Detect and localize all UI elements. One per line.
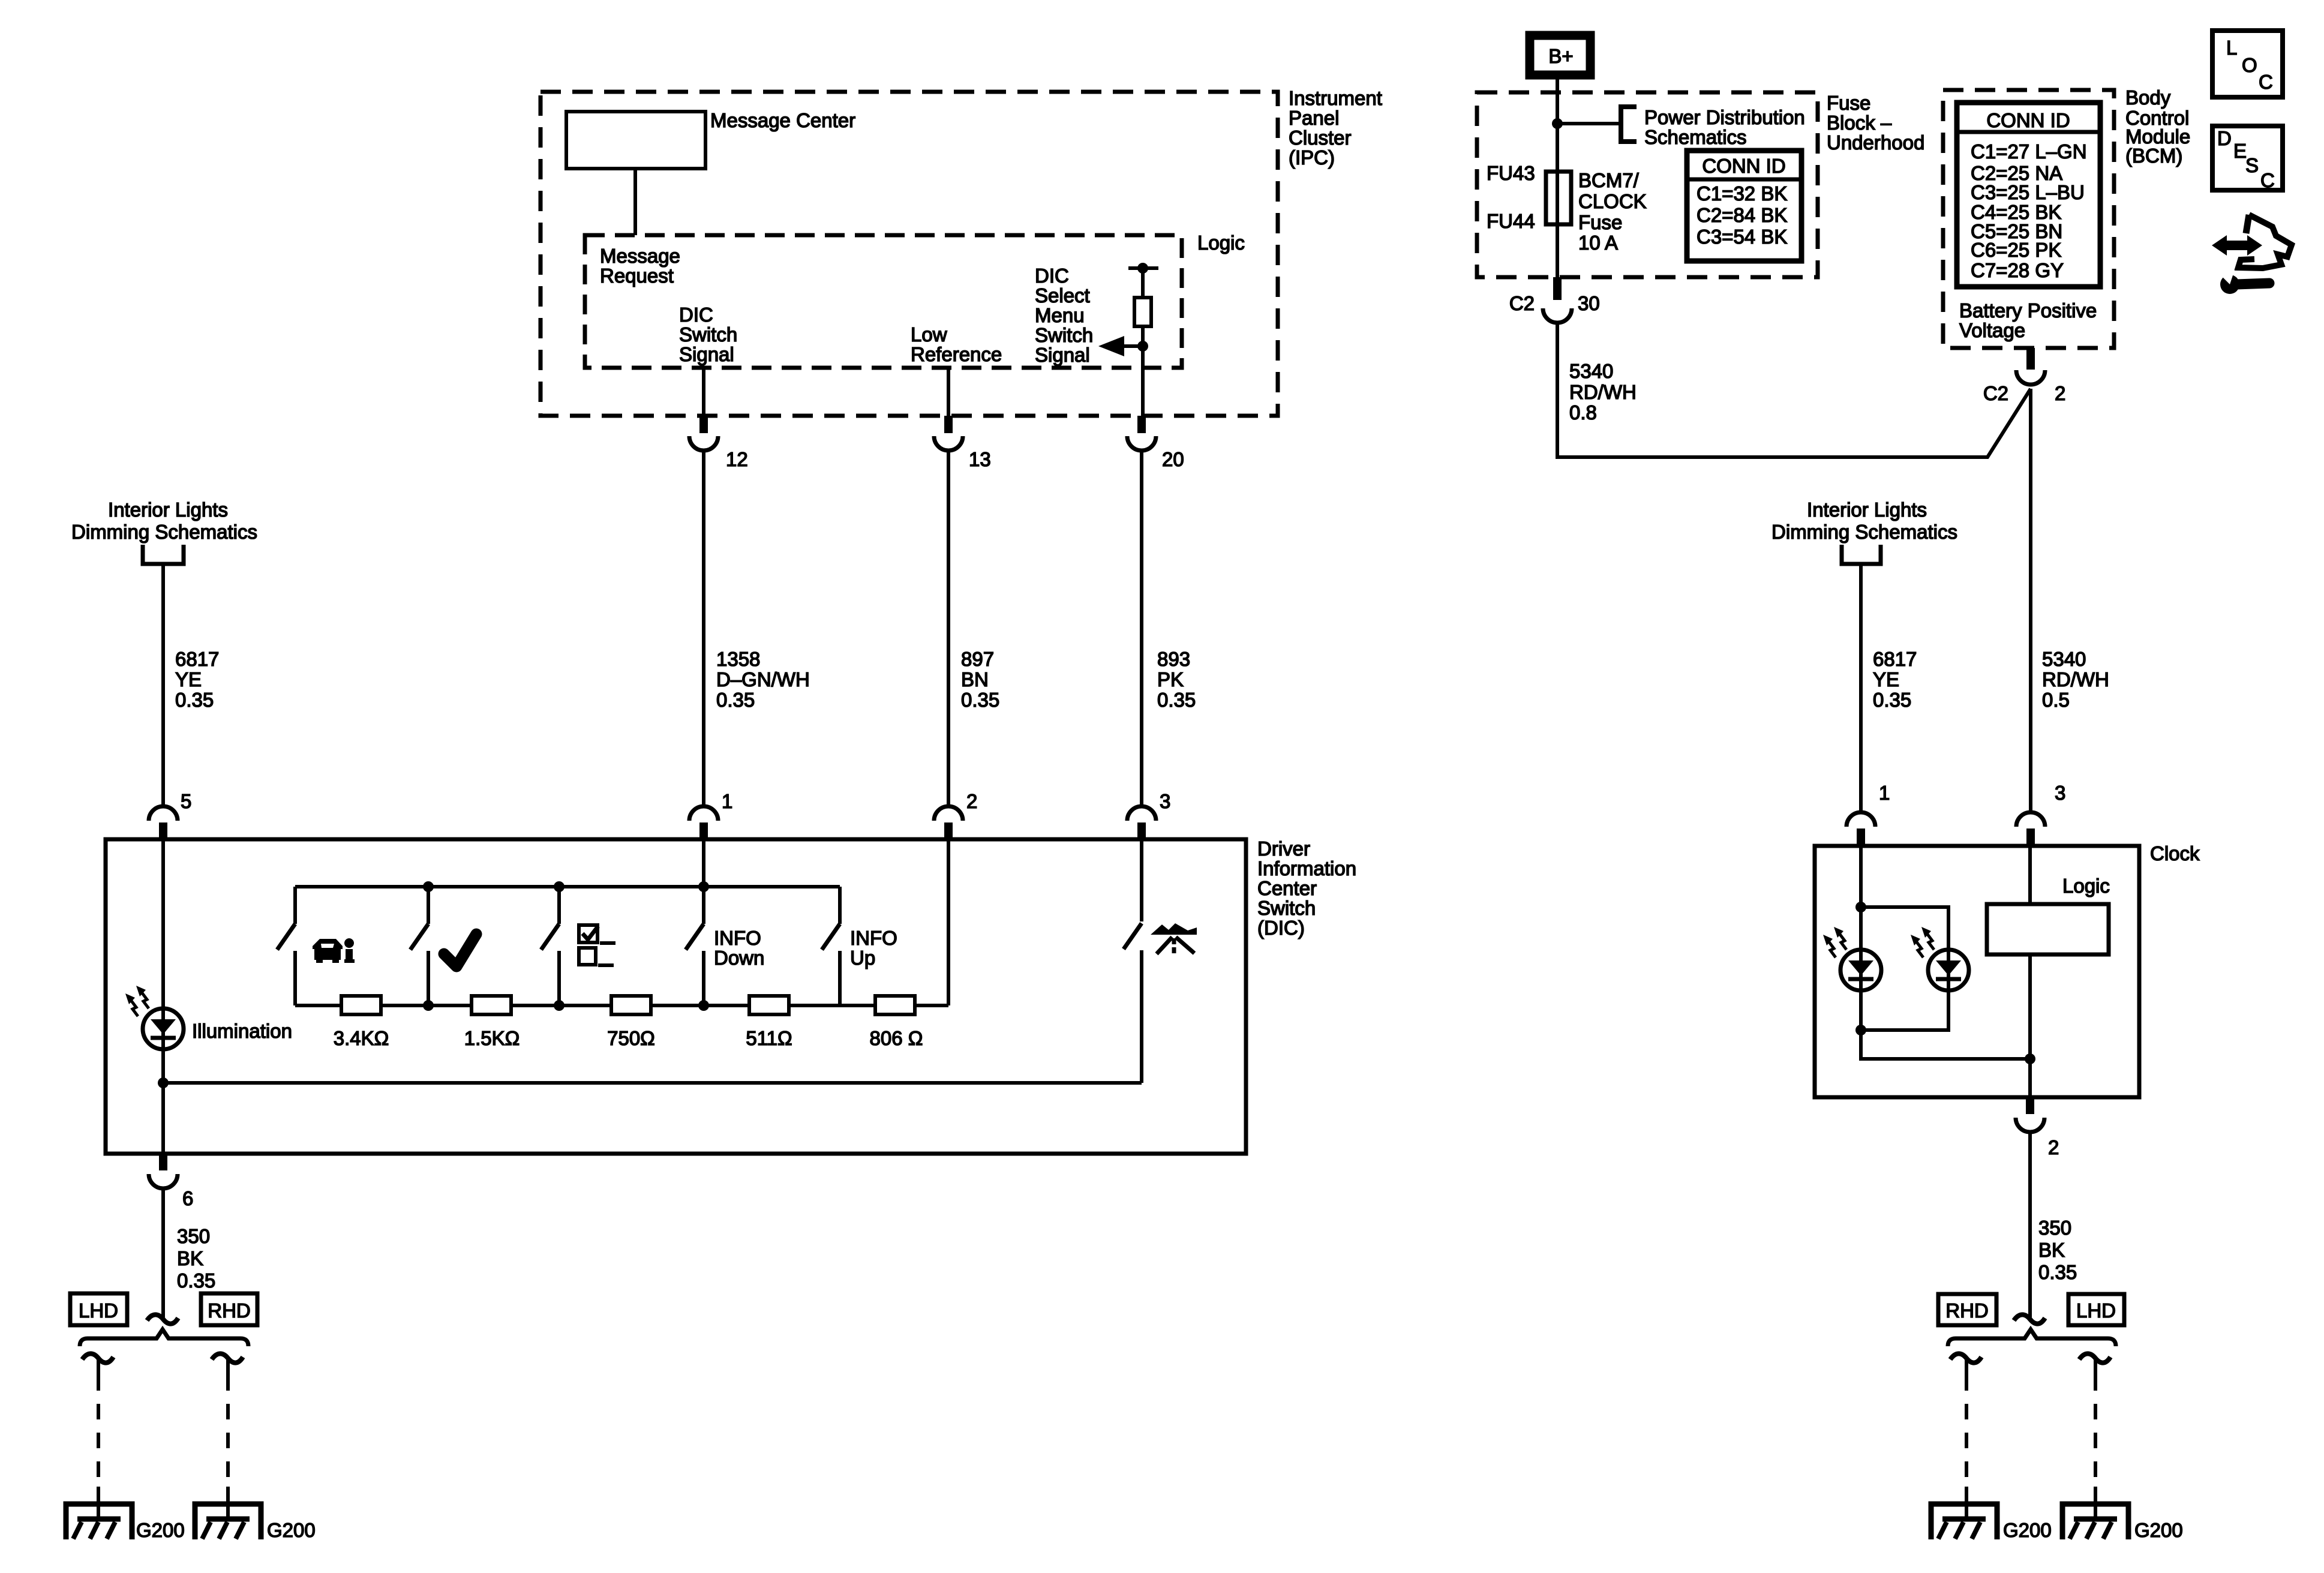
svg-text:511Ω: 511Ω [746, 1027, 792, 1049]
svg-text:Reference: Reference [911, 343, 1002, 365]
info up label [850, 927, 897, 969]
svg-text:FU43: FU43 [1487, 162, 1535, 184]
interior lights dimming schematics label right [1771, 499, 1957, 543]
svg-text:5340: 5340 [1569, 360, 1613, 382]
svg-text:Fuse: Fuse [1578, 211, 1622, 233]
svg-text:S: S [2245, 154, 2259, 176]
connector pin 5 arc [149, 806, 178, 821]
connector clock pin 2 cup [2016, 1118, 2044, 1132]
svg-text:Battery Positive: Battery Positive [1959, 299, 2097, 322]
svg-text:Message: Message [600, 245, 680, 267]
resistor 1.5K [472, 996, 511, 1014]
connector pin 6 stub [159, 1154, 167, 1170]
switch S1 vehicle info [277, 887, 295, 1005]
connector pin 5 stub [159, 822, 167, 840]
resistor chain line [295, 1004, 948, 1007]
svg-text:0.35: 0.35 [175, 689, 214, 711]
wire B+ to fuse [1556, 75, 1559, 300]
wire tap to bracket [1557, 122, 1621, 125]
crimp left branch 2 [212, 1353, 243, 1362]
svg-text:LHD: LHD [2076, 1299, 2116, 1322]
wire 897 BN [947, 451, 950, 806]
crimp right branch 1 [1950, 1353, 1981, 1362]
wire 6817 YE left [161, 566, 165, 806]
connector clock pin 2 stub [2026, 1097, 2034, 1114]
connector pin 20 stub [1137, 416, 1146, 433]
svg-text:897: 897 [961, 648, 994, 670]
svg-text:RHD: RHD [1945, 1299, 1989, 1322]
svg-text:Switch: Switch [1035, 324, 1093, 346]
svg-text:Dimming Schematics: Dimming Schematics [1771, 521, 1957, 543]
wire 897 label [961, 648, 999, 711]
node bus switch3 [554, 881, 565, 892]
fuse name label [1578, 169, 1647, 254]
svg-text:PK: PK [1157, 668, 1184, 691]
off-page bracket right [1842, 545, 1881, 564]
svg-text:350: 350 [2038, 1217, 2071, 1239]
svg-text:RD/WH: RD/WH [1569, 381, 1637, 403]
RHD box left [201, 1293, 257, 1325]
clock LED 2 arrows [1911, 927, 1934, 957]
svg-text:12: 12 [726, 448, 748, 470]
splice wave right [2014, 1314, 2045, 1323]
svg-text:1.5KΩ: 1.5KΩ [464, 1027, 520, 1049]
LOC box [2212, 31, 2283, 97]
wire illumination return [163, 1081, 1142, 1085]
info down label [714, 927, 764, 969]
IPC outer dashed box [541, 92, 1278, 416]
svg-text:E: E [2233, 140, 2247, 162]
svg-text:BCM7/: BCM7/ [1578, 169, 1640, 191]
svg-text:Voltage: Voltage [1959, 319, 2025, 341]
wire message request [633, 169, 637, 235]
power distribution bracket [1621, 107, 1637, 142]
svg-text:1: 1 [1879, 782, 1890, 804]
svg-text:DIC: DIC [679, 304, 713, 326]
svg-text:B+: B+ [1548, 45, 1573, 67]
connector pin 2 arc [934, 806, 963, 821]
wire pin5 illumination column [161, 839, 165, 1154]
svg-text:Schematics: Schematics [1644, 126, 1747, 148]
svg-text:RHD: RHD [208, 1299, 251, 1322]
clock LED 2 [1928, 950, 1969, 990]
wire 893 PK [1140, 451, 1143, 806]
crimp left branch 1 [82, 1353, 113, 1362]
wire low reference inside IPC [947, 368, 950, 416]
svg-text:D–GN/WH: D–GN/WH [716, 668, 810, 691]
switch S4 info down [686, 887, 704, 1005]
low reference label [911, 323, 1002, 365]
node on rail [1137, 263, 1148, 274]
svg-text:5: 5 [181, 790, 191, 812]
connector pin 20 cup [1127, 436, 1156, 451]
node bus wire1 [698, 881, 709, 892]
svg-text:Signal: Signal [679, 343, 734, 365]
svg-text:3: 3 [1160, 790, 1170, 812]
interior lights dimming schematics label left [71, 499, 257, 543]
resistor 750 [611, 996, 651, 1014]
svg-text:750Ω: 750Ω [607, 1027, 655, 1049]
svg-text:Interior Lights: Interior Lights [1807, 499, 1927, 521]
wire 1358 label [716, 648, 810, 711]
clock logic box [1987, 904, 2109, 954]
wire 893 label [1157, 648, 1196, 711]
svg-text:Fuse: Fuse [1827, 92, 1870, 114]
svg-text:1358: 1358 [716, 648, 760, 670]
signal arrow tail [1124, 344, 1143, 348]
resistor 511 [749, 996, 789, 1014]
wire 6817 YE right [1859, 566, 1863, 813]
DESC letters [2217, 127, 2275, 191]
resistor pull-up in IPC [1134, 298, 1151, 326]
svg-text:YE: YE [1873, 668, 1899, 691]
svg-text:L: L [2226, 37, 2237, 59]
svg-text:(DIC): (DIC) [1257, 917, 1305, 939]
conn id rows fuse block [1697, 182, 1787, 248]
connector pin 1 stub [699, 822, 708, 840]
svg-text:D: D [2217, 127, 2232, 149]
connector pin 12 cup [689, 436, 718, 451]
svg-text:CONN ID: CONN ID [1986, 109, 2070, 131]
car info icon [313, 938, 355, 963]
connector pin 3 stub [1137, 822, 1146, 840]
svg-text:C: C [2259, 71, 2273, 93]
switch S2 check [410, 887, 428, 1005]
wrench icon [2217, 270, 2269, 294]
svg-text:G200: G200 [267, 1519, 316, 1541]
svg-text:0.35: 0.35 [961, 689, 999, 711]
svg-text:CLOCK: CLOCK [1578, 190, 1647, 212]
DIC switch box [106, 839, 1246, 1154]
svg-text:Clock: Clock [2150, 842, 2200, 864]
wire 5340 RD/WH 0.5 [2029, 389, 2032, 813]
battery positive voltage label [1959, 299, 2097, 341]
svg-text:Up: Up [850, 947, 875, 969]
svg-text:Menu: Menu [1035, 304, 1085, 326]
conn id table fuse block [1687, 151, 1801, 261]
connector C2-2 cup [2016, 370, 2045, 385]
connector pin 1 arc [689, 806, 718, 821]
switch S3 options [541, 887, 559, 1005]
node chain switch2 [423, 1000, 434, 1011]
DESC box [2212, 126, 2283, 190]
svg-text:Interior Lights: Interior Lights [108, 499, 228, 521]
wire LED2 branch [1861, 907, 1948, 1030]
svg-text:C7=28 GY: C7=28 GY [1971, 259, 2064, 281]
vehicle outline icon stroke2 [2246, 215, 2249, 233]
wire pin2 to chain [947, 839, 950, 1005]
BCM label [2125, 86, 2190, 167]
DIC select menu switch signal label [1035, 265, 1093, 366]
wire 6817 label left [175, 648, 219, 711]
resistor 3.4K [341, 996, 381, 1014]
wire rail to resistor and down [1141, 268, 1145, 416]
connector clock pin 3 stub [2026, 828, 2035, 846]
svg-text:0.35: 0.35 [1157, 689, 1196, 711]
connector pin 13 stub [944, 416, 953, 433]
svg-text:(BCM): (BCM) [2125, 145, 2182, 167]
wire 350 BK left label [177, 1225, 215, 1292]
RHD box right [1938, 1294, 1996, 1325]
connector C2-2 stub [2026, 348, 2035, 370]
svg-text:Cluster: Cluster [1289, 127, 1352, 149]
double arrow icon [2212, 235, 2262, 256]
svg-text:0.35: 0.35 [177, 1269, 215, 1292]
svg-text:O: O [2242, 54, 2257, 76]
LED illumination [143, 1008, 184, 1049]
svg-text:G200: G200 [2003, 1519, 2052, 1541]
LED illumination arrows [125, 986, 149, 1016]
switch S6 trip [1124, 839, 1142, 1083]
options checkbox icon [579, 925, 615, 965]
fuse BCM7 CLOCK [1546, 172, 1571, 224]
wire 5340 label [1569, 360, 1637, 424]
connector clock pin 1 stub [1857, 828, 1865, 846]
DIC switch signal label [679, 304, 737, 365]
svg-text:Select: Select [1035, 284, 1090, 307]
svg-text:Illumination: Illumination [192, 1020, 292, 1042]
node arrow junction [1137, 341, 1148, 352]
node chain switch3 [554, 1000, 565, 1011]
wire DIC switch signal inside IPC [702, 368, 705, 416]
svg-text:Signal: Signal [1035, 344, 1090, 366]
brace right [1948, 1329, 2116, 1346]
conn id table BCM [1957, 103, 2100, 287]
IPC logic inner dashed box [585, 235, 1182, 368]
connector pin 3 arc [1127, 806, 1156, 821]
connector C2-30 cup [1543, 308, 1572, 323]
trip icon mountains [1151, 923, 1197, 935]
svg-text:C3=54 BK: C3=54 BK [1697, 226, 1787, 248]
wire clock pin1 down [1859, 846, 1863, 1030]
node logic return [2025, 1053, 2035, 1064]
svg-text:(IPC): (IPC) [1289, 146, 1335, 169]
svg-text:6817: 6817 [175, 648, 219, 670]
LOC letters [2226, 37, 2273, 93]
resistor 806 [875, 996, 915, 1014]
message center display box [566, 112, 705, 169]
wire 5340 0.5 label [2042, 648, 2109, 711]
wire 350 BK left [161, 1188, 165, 1317]
svg-text:C3=25 L–BU: C3=25 L–BU [1971, 181, 2085, 203]
svg-text:6817: 6817 [1873, 648, 1917, 670]
svg-text:2: 2 [2055, 382, 2065, 404]
svg-text:2: 2 [966, 790, 977, 812]
trip icon dashes [1172, 938, 1176, 953]
fuse block dashed box [1477, 92, 1818, 277]
ground G200 left 1 [66, 1504, 132, 1539]
svg-text:350: 350 [177, 1225, 210, 1247]
wire pin1 to bus [702, 839, 705, 887]
IPC label [1289, 87, 1382, 169]
node chain switch4 [698, 1000, 709, 1011]
svg-text:C1=32 BK: C1=32 BK [1697, 182, 1787, 205]
clock LED 1 arrows [1823, 927, 1846, 957]
svg-text:BN: BN [961, 668, 989, 691]
signal arrowhead [1098, 336, 1124, 356]
dashed wire to G200 left 1 [97, 1359, 100, 1375]
connector pin 13 cup [934, 436, 963, 451]
svg-text:Underhood: Underhood [1827, 131, 1924, 154]
svg-text:0.8: 0.8 [1569, 401, 1597, 424]
off-page bracket left [143, 545, 184, 564]
svg-text:C6=25 PK: C6=25 PK [1971, 239, 2061, 261]
node clock LED bottom [1855, 1025, 1866, 1035]
switch top bus [295, 885, 840, 888]
BCM dashed box [1943, 90, 2114, 348]
svg-text:G200: G200 [2134, 1519, 2183, 1541]
svg-text:Request: Request [600, 265, 674, 287]
svg-text:INFO: INFO [850, 927, 897, 949]
connector C2-30 stub [1553, 277, 1562, 300]
svg-text:G200: G200 [136, 1519, 185, 1541]
fuse block label [1827, 92, 1924, 154]
dashed wire to G200 right 2 [2094, 1359, 2097, 1375]
LHD box right [2068, 1294, 2124, 1325]
svg-text:FU44: FU44 [1487, 210, 1535, 232]
svg-text:Block –: Block – [1827, 112, 1892, 134]
svg-text:DIC: DIC [1035, 265, 1069, 287]
crimp right branch 2 [2079, 1353, 2110, 1362]
wire logic to pin2 [2028, 954, 2032, 1097]
check mark icon [444, 934, 476, 966]
ground G200 right 2 [2062, 1504, 2128, 1539]
clock LED 1 [1840, 950, 1881, 990]
brace left [80, 1329, 248, 1346]
svg-text:C: C [2260, 169, 2275, 191]
svg-text:Down: Down [714, 947, 764, 969]
message request label [600, 245, 680, 287]
svg-text:0.35: 0.35 [1873, 689, 1911, 711]
node clock LED top [1855, 902, 1866, 912]
svg-text:BK: BK [2038, 1239, 2065, 1261]
svg-text:RD/WH: RD/WH [2042, 668, 2109, 691]
svg-text:LHD: LHD [79, 1299, 118, 1322]
svg-text:0.35: 0.35 [716, 689, 755, 711]
wire LED return to logic [1861, 1030, 2030, 1059]
trip icon legs [1157, 937, 1194, 954]
svg-text:5340: 5340 [2042, 648, 2086, 670]
ground G200 right 1 [1931, 1504, 1997, 1539]
svg-text:Logic: Logic [2062, 875, 2110, 897]
internal rail tick [1128, 266, 1158, 270]
svg-text:Power Distribution: Power Distribution [1644, 106, 1805, 128]
svg-text:Center: Center [1257, 877, 1317, 899]
svg-text:0.35: 0.35 [2038, 1261, 2077, 1283]
DIC label [1257, 837, 1356, 939]
svg-text:3: 3 [2055, 782, 2065, 804]
svg-text:Information: Information [1257, 857, 1356, 879]
svg-text:1: 1 [722, 790, 732, 812]
svg-text:2: 2 [2048, 1136, 2059, 1158]
connector pin 2 stub [944, 822, 953, 840]
svg-text:3.4KΩ: 3.4KΩ [334, 1027, 389, 1049]
node power distribution tap [1552, 118, 1563, 129]
svg-text:Panel: Panel [1289, 107, 1339, 129]
svg-text:20: 20 [1162, 448, 1184, 470]
clock box [1815, 846, 2139, 1097]
power distribution label [1644, 106, 1805, 148]
svg-text:BK: BK [177, 1247, 203, 1269]
svg-text:Driver: Driver [1257, 837, 1310, 860]
svg-text:C2: C2 [1983, 382, 2008, 404]
svg-text:10 A: 10 A [1578, 232, 1618, 254]
dashed wire to G200 right 1 [1965, 1359, 1968, 1375]
svg-text:Instrument: Instrument [1289, 87, 1382, 109]
conn id rows BCM [1971, 140, 2087, 281]
svg-text:Low: Low [911, 323, 947, 346]
svg-text:Message Center: Message Center [710, 109, 855, 131]
svg-text:CONN ID: CONN ID [1702, 155, 1785, 177]
connector pin 12 stub [699, 416, 708, 433]
svg-text:C2=84 BK: C2=84 BK [1697, 204, 1787, 226]
svg-text:0.5: 0.5 [2042, 689, 2070, 711]
svg-text:Body: Body [2125, 86, 2171, 109]
svg-text:C2: C2 [1509, 292, 1535, 314]
dashed wire to G200 left 2 [226, 1359, 230, 1375]
ground G200 left 2 [195, 1504, 261, 1539]
wire 350 BK right label [2038, 1217, 2077, 1283]
wire 5340 RD/WH 0.8 [1557, 323, 2031, 457]
connector clock pin 1 arc [1846, 812, 1875, 827]
svg-text:30: 30 [1578, 292, 1600, 314]
LHD box left [70, 1293, 127, 1325]
splice wave left [147, 1314, 178, 1323]
svg-text:893: 893 [1157, 648, 1190, 670]
svg-text:13: 13 [969, 448, 991, 470]
svg-text:Dimming Schematics: Dimming Schematics [71, 521, 257, 543]
connector clock pin 3 arc [2016, 812, 2045, 827]
wire 6817 right label [1873, 648, 1917, 711]
wire clock pin3 to logic [2028, 846, 2032, 904]
svg-text:C1=27 L–GN: C1=27 L–GN [1971, 140, 2087, 163]
svg-text:806 Ω: 806 Ω [870, 1027, 923, 1049]
svg-text:Switch: Switch [679, 323, 737, 346]
svg-text:Switch: Switch [1257, 897, 1316, 919]
svg-text:6: 6 [182, 1187, 193, 1209]
node illumination return [158, 1077, 169, 1088]
svg-text:Logic: Logic [1197, 232, 1245, 254]
node bus switch2 [423, 881, 434, 892]
B+ box [1530, 35, 1590, 75]
wire 350 BK right [2028, 1132, 2032, 1317]
svg-text:YE: YE [175, 668, 202, 691]
svg-text:INFO: INFO [714, 927, 761, 949]
connector pin 6 cup [149, 1174, 178, 1188]
wire 1358 D-GN/WH [702, 451, 705, 806]
vehicle outline icon [2238, 215, 2292, 268]
switch S5 info up [822, 887, 840, 1005]
